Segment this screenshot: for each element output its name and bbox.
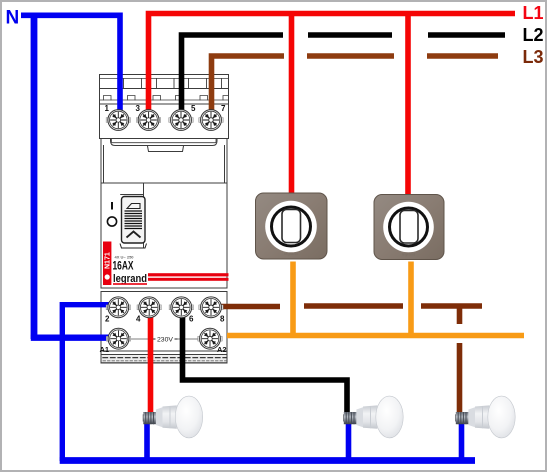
node L2 label: [523, 25, 544, 45]
wire lamp E1 neutral drop: [144, 419, 150, 459]
node L3 label: [523, 47, 544, 67]
wire N to relay pin A1: [31, 335, 112, 341]
relay pin 8: [199, 297, 225, 324]
svg-text:3: 3: [136, 104, 141, 113]
svg-text:N171: N171: [105, 252, 112, 269]
relay pin A1: [100, 328, 131, 354]
wire L2 from relay pin 5: [182, 35, 284, 113]
relay pin A2: [198, 328, 227, 354]
relay K1 (Legrand 16AX latching relay): [100, 75, 229, 364]
wire lamp E3 neutral drop: [459, 419, 465, 459]
wire L2 dash segment: [308, 32, 392, 38]
relay pin 2: [105, 297, 131, 324]
wire lamp E2 neutral drop: [346, 419, 352, 459]
svg-text:L2: L2: [523, 25, 544, 45]
wire from relay pin 6 to lamp E2: [183, 308, 348, 416]
wire L1 drop to push button S2: [405, 14, 411, 195]
wire from relay pin 2 to bottom neutral bus: [62, 305, 110, 461]
wire brown bus dash segment with tee: [421, 306, 482, 324]
wire N horizontal from label: [21, 13, 120, 19]
wire N left vertical: [31, 13, 38, 340]
lamp E2: [343, 396, 403, 438]
wire L3 dash segment: [427, 53, 498, 59]
wire bottom neutral bus: [60, 457, 475, 464]
node L1 label: [523, 3, 544, 23]
svg-text:6: 6: [189, 315, 194, 324]
relay red label N171: [103, 242, 112, 286]
relay pin 5: [169, 104, 196, 130]
svg-text:7: 7: [221, 104, 226, 113]
wire brown drop to lamp E3: [457, 343, 463, 416]
svg-text:N: N: [6, 8, 20, 29]
svg-text:8: 8: [220, 315, 225, 324]
node N label: [6, 8, 20, 29]
manual switch lever of relay: [107, 197, 146, 249]
wire L2 dash segment: [428, 32, 505, 38]
svg-text:230V: 230V: [157, 336, 174, 343]
svg-text:4: 4: [136, 315, 141, 324]
svg-text:1: 1: [105, 104, 110, 113]
svg-text:16AX: 16AX: [113, 261, 134, 273]
relay markings: 16AX / legrand: [113, 255, 229, 286]
svg-text:5: 5: [191, 104, 196, 113]
wire N drop to relay pin 1: [117, 13, 123, 114]
svg-text:2: 2: [105, 315, 110, 324]
lamp E1: [143, 396, 203, 438]
relay pin 7: [199, 104, 226, 130]
wire L1 drop to push button S1: [289, 14, 295, 194]
wire L3 dash segment: [307, 53, 394, 59]
relay pin 3: [136, 104, 161, 130]
lamp E3: [455, 396, 515, 438]
wire brown bus dash segment: [304, 303, 403, 309]
relay pin 4: [136, 297, 161, 324]
wire orange bus from relay pin A2: [227, 333, 524, 339]
wire brown bus from relay pin 8: [213, 304, 280, 310]
svg-text:L3: L3: [523, 47, 544, 67]
svg-text:A2: A2: [217, 345, 227, 354]
svg-text:legrand: legrand: [402, 252, 415, 257]
relay pin 6: [169, 297, 194, 324]
svg-text:L1: L1: [523, 3, 544, 23]
push button S1: [256, 193, 328, 259]
relay pin 1: [105, 104, 131, 130]
push button S2: [374, 195, 444, 260]
wire orange drop from push button S1: [290, 262, 296, 334]
wire orange drop from push button S2: [408, 262, 414, 334]
wire L3 from relay pin 7: [212, 56, 285, 113]
wire from relay pin 4 to lamp E1: [148, 308, 154, 416]
relay 230V marking: [130, 336, 200, 343]
wire L1 from relay pin 3: [149, 14, 516, 114]
svg-text:A1: A1: [100, 345, 110, 354]
svg-text:legrand: legrand: [284, 251, 297, 256]
svg-text:4X U~ 250: 4X U~ 250: [115, 255, 135, 260]
